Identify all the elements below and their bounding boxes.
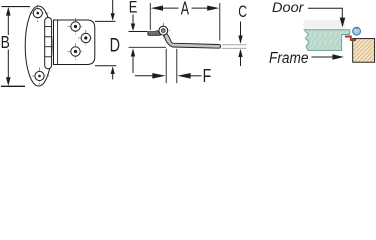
dim B line lower segment xyxy=(7,50,9,81)
red hinge leaf (section) xyxy=(345,36,356,41)
leaf fold line xyxy=(57,20,59,65)
leaf hole 2 center lines xyxy=(78,30,94,46)
oval leaf xyxy=(25,6,52,86)
door slab (teal) xyxy=(304,30,350,51)
oval hole top: center lines xyxy=(30,5,49,23)
oval hole bottom: center lines xyxy=(32,68,50,85)
knuckle division line 1 xyxy=(45,26,52,28)
leaf hole 3 xyxy=(71,47,80,56)
blue knuckle (section) xyxy=(353,27,361,35)
dim F right extension line xyxy=(176,49,178,83)
rectangular leaf xyxy=(54,20,95,65)
dim A right extension line xyxy=(219,3,221,41)
leaf hole 1 xyxy=(71,22,80,31)
dim E top extension line xyxy=(129,31,148,33)
svg-text:E: E xyxy=(129,0,138,16)
dim E bottom extension line xyxy=(129,46,167,48)
dim C extension lines xyxy=(222,44,247,46)
svg-text:A: A xyxy=(181,0,189,19)
svg-text:Frame: Frame xyxy=(269,50,309,67)
dim F left extension line xyxy=(165,49,167,83)
oval hole top xyxy=(33,9,42,18)
dim B arrowhead down xyxy=(6,77,11,86)
knuckle division line 4 xyxy=(45,56,52,58)
dim D top extension xyxy=(95,20,116,22)
leaf hole 3 center lines xyxy=(68,44,84,61)
dim B bottom extension line xyxy=(1,85,25,87)
knuckle division line 3 xyxy=(45,46,52,48)
oval hole bottom xyxy=(35,71,44,80)
dim B arrowhead up xyxy=(6,7,11,16)
dim D top arrow xyxy=(112,0,114,15)
Door leader line xyxy=(308,8,342,18)
dim E up arrow xyxy=(132,54,134,74)
svg-text:C: C xyxy=(238,2,247,21)
svg-text:Door: Door xyxy=(272,0,305,15)
frame block hatch xyxy=(353,39,374,62)
dim E down arrow xyxy=(132,15,134,28)
dim C down arrow xyxy=(240,22,242,37)
svg-text:B: B xyxy=(1,32,10,52)
dim A line left + arrow xyxy=(162,7,179,9)
dim B line upper segment xyxy=(7,12,9,35)
Door leader arrowhead xyxy=(340,18,346,28)
svg-text:D: D xyxy=(110,36,120,57)
leaf hole 2 xyxy=(81,33,90,42)
knuckle circle (side view) xyxy=(159,26,168,35)
strap bend + lower leaf (side view) xyxy=(164,33,221,48)
door slab hatch xyxy=(304,30,350,51)
door top gray band xyxy=(304,20,346,28)
leaf hole 1 center lines xyxy=(68,18,84,35)
dim F left arrow xyxy=(135,75,153,77)
dim F right arrow xyxy=(190,75,202,77)
Frame leader arrowhead xyxy=(332,54,344,60)
knuckle division line 2 xyxy=(45,36,52,38)
dim D bottom arrow xyxy=(112,73,114,80)
frame block (tan) xyxy=(353,39,375,63)
dim A line right + arrow xyxy=(192,7,209,9)
svg-text:F: F xyxy=(203,66,212,86)
upper leaf bar (side view) xyxy=(148,32,161,36)
Frame leader line xyxy=(312,56,334,58)
knuckle barrel (front view) xyxy=(45,18,52,69)
dim D bottom extension xyxy=(95,65,116,67)
dim A left extension line xyxy=(149,3,151,30)
dim B top extension line xyxy=(2,6,31,8)
dim C up arrow xyxy=(240,57,242,66)
knuckle center lines xyxy=(156,23,171,39)
